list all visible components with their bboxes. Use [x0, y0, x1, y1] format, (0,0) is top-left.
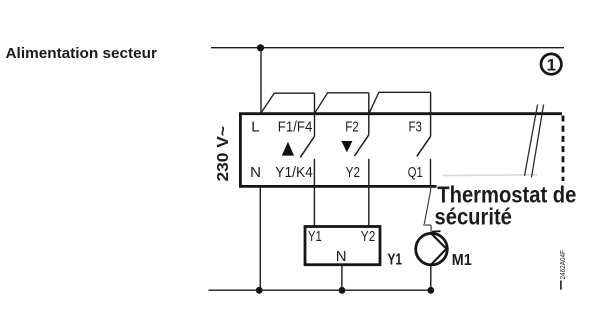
svg-text:2462A04F: 2462A04F [558, 250, 567, 280]
svg-text:Alimentation secteur: Alimentation secteur [6, 45, 158, 62]
controller box outline [240, 114, 562, 187]
svg-text:Y1/K4: Y1/K4 [275, 164, 313, 181]
svg-text:Y1: Y1 [388, 251, 403, 268]
contact switch 2: F2 to Y2 [355, 93, 369, 226]
wire: actuator N to neutral bus [341, 266, 343, 291]
contact switch 1: F1/F4 to Y1/K4 [300, 93, 314, 225]
wire: neutral bus [209, 289, 432, 291]
svg-text:Y1: Y1 [308, 228, 322, 245]
thermostat safety contact link [423, 186, 431, 233]
actuator box Y1 [305, 227, 380, 265]
svg-text:Y2: Y2 [361, 228, 376, 245]
contact switch 3: F3 to Q1 [417, 92, 431, 186]
node 1: circled reference [541, 54, 561, 74]
junction: mains drop to L [257, 44, 264, 51]
link bar: contact 1 to contact 2 [315, 93, 369, 113]
svg-text:230 V~: 230 V~ [215, 126, 232, 182]
wire: N terminal to neutral bus [259, 186, 261, 290]
link bar: L to contact 1 [261, 93, 315, 113]
dashed continuation edge [562, 116, 565, 182]
break marks [525, 105, 544, 178]
wire: drop from mains to terminal L [260, 48, 262, 113]
svg-text:M1: M1 [452, 252, 472, 269]
svg-text:F1/F4: F1/F4 [278, 118, 313, 135]
indicator: triangle down [341, 141, 352, 152]
svg-text:F2: F2 [345, 118, 359, 135]
svg-text:sécurité: sécurité [435, 203, 512, 230]
svg-text:F3: F3 [409, 118, 423, 135]
svg-text:Q1: Q1 [408, 164, 423, 181]
link bar: contact 2 to contact 3 [369, 92, 431, 113]
svg-text:1: 1 [547, 55, 556, 74]
junction: pump on bus [427, 287, 434, 294]
doc ref: 2462A04F [558, 250, 567, 290]
svg-text:L: L [251, 118, 259, 135]
erased line remnant [443, 174, 537, 177]
junction: actuator N on bus [339, 287, 346, 294]
svg-text:N: N [336, 248, 347, 265]
wire: mains phase line [211, 47, 564, 49]
svg-text:N: N [250, 164, 261, 181]
indicator: triangle up [282, 142, 294, 156]
wire: pump to neutral bus [430, 265, 432, 290]
svg-text:Y2: Y2 [346, 164, 361, 181]
pump M1 [416, 231, 448, 265]
junction: N drop on bus [256, 287, 263, 294]
